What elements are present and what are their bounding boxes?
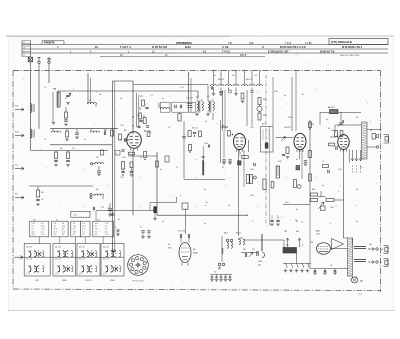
svg-text:5 4 B T 4: 5 4 B T 4: [120, 45, 131, 49]
svg-text:4 1: 4 1: [54, 226, 56, 228]
svg-text:11 4: 11 4: [105, 234, 108, 236]
svg-text:30 4 07: 30 4 07: [55, 247, 61, 249]
svg-text:1 11: 1 11: [32, 223, 35, 225]
svg-text:11 4: 11 4: [32, 231, 35, 233]
svg-text:1402: 1402: [358, 294, 362, 296]
svg-text:4x 4: 4x 4: [285, 202, 288, 204]
svg-text:INTERMEDIO: INTERMEDIO: [176, 42, 192, 45]
svg-text:240: 240: [243, 249, 246, 251]
svg-text:4x: 4x: [326, 119, 328, 121]
svg-text:11 4: 11 4: [32, 234, 35, 236]
svg-text:14: 14: [73, 223, 75, 225]
svg-text:B L: B L: [95, 46, 99, 49]
svg-text:4 1 x: 4 1 x: [26, 274, 30, 276]
svg-text:4. LB: 4. LB: [222, 45, 228, 49]
svg-text:R1: R1: [60, 148, 62, 150]
svg-text:T h. B: T h. B: [285, 43, 292, 45]
svg-text:4x: 4x: [296, 159, 298, 161]
svg-text:Cx: Cx: [380, 262, 382, 264]
svg-text:4 4: 4 4: [82, 231, 84, 233]
svg-text:4 4: 4 4: [82, 223, 84, 225]
svg-text:S45: S45: [262, 124, 265, 126]
svg-text:S40 4.5: S40 4.5: [218, 79, 224, 81]
svg-text:R6: R6: [41, 192, 43, 194]
svg-text:B.B.I: B.B.I: [185, 45, 191, 49]
svg-text:x: x: [316, 89, 317, 91]
svg-text:14: 14: [105, 226, 107, 228]
svg-text:B.M B: B.M B: [240, 55, 247, 57]
svg-text:C18 C19: C18 C19: [186, 98, 193, 100]
svg-text:4 4: 4 4: [105, 231, 107, 233]
svg-text:SK31-2: SK31-2: [85, 280, 91, 282]
svg-text:1 11: 1 11: [105, 223, 108, 225]
svg-text:11 4: 11 4: [41, 234, 44, 236]
svg-text:7 4 4 2: 7 4 4 2: [222, 51, 230, 54]
svg-text:L2: L2: [89, 100, 91, 102]
svg-text:11 4: 11 4: [62, 231, 65, 233]
svg-text:FRONTE: FRONTE: [44, 41, 55, 45]
svg-text:11 4: 11 4: [95, 223, 98, 225]
svg-text:14: 14: [82, 234, 84, 236]
svg-text:4A0: 4A0: [360, 280, 363, 283]
svg-text:11 4: 11 4: [54, 231, 57, 233]
svg-text:x: x: [356, 205, 357, 207]
svg-text:m m: m m: [74, 215, 78, 217]
svg-text:B.BT 14. I BLL.I B 4: B.BT 14. I BLL.I B 4: [340, 55, 360, 57]
svg-text:4x: 4x: [204, 189, 206, 191]
svg-text:S3: S3: [207, 96, 209, 98]
svg-text:30 4 07: 30 4 07: [103, 247, 109, 249]
svg-text:4x: 4x: [204, 223, 206, 225]
svg-text:S2: S2: [196, 97, 198, 99]
svg-text:4 1: 4 1: [95, 234, 97, 236]
svg-text:B6: B6: [311, 242, 313, 244]
svg-text:4x: 4x: [162, 98, 164, 100]
svg-text:1 11: 1 11: [41, 229, 44, 231]
svg-text:40 + 4x: 40 + 4x: [79, 258, 85, 260]
svg-text:P E 2 3 4 9 6: P E 2 3 4 9 6: [132, 281, 144, 283]
svg-text:40 + 4x: 40 + 4x: [55, 258, 61, 260]
svg-text:R24: R24: [263, 99, 266, 101]
svg-text:4 1: 4 1: [73, 234, 75, 236]
svg-text:4 1 x: 4 1 x: [55, 274, 59, 276]
svg-text:4 4: 4 4: [62, 234, 64, 236]
svg-text:C9: C9: [370, 130, 372, 132]
svg-text:B: B: [262, 45, 264, 49]
svg-text:282: 282: [284, 231, 287, 233]
svg-text:4x0: 4x0: [369, 244, 372, 246]
svg-text:80 80 CH8 4T3 9 I I 4 AI: 80 80 CH8 4T3 9 I I 4 AI: [280, 46, 306, 49]
svg-text:4 1: 4 1: [32, 226, 34, 228]
svg-text:BVM: BVM: [110, 280, 115, 282]
svg-text:C x: C x: [108, 207, 111, 209]
svg-text:R21 4x: R21 4x: [192, 128, 198, 130]
svg-text:C12: C12: [140, 96, 143, 98]
svg-text:14: 14: [62, 223, 64, 225]
svg-text:E TAV.OLIV.E 1 BT: E TAV.OLIV.E 1 BT: [268, 51, 289, 54]
svg-text:x: x: [196, 159, 197, 161]
svg-text:C72 C73: C72 C73: [178, 231, 185, 233]
svg-text:4x BL: 4x BL: [204, 143, 208, 145]
svg-text:4 4: 4 4: [41, 223, 43, 225]
svg-text:SA 1: SA 1: [224, 232, 228, 235]
svg-text:x: x: [180, 195, 181, 197]
svg-text:4 11: 4 11: [33, 219, 36, 221]
svg-text:R40: R40: [312, 189, 315, 191]
svg-text:U.B.: U.B.: [249, 42, 254, 45]
svg-text:4x: 4x: [322, 185, 324, 187]
svg-text:14: 14: [54, 234, 56, 236]
svg-text:4 1: 4 1: [62, 229, 64, 231]
svg-text:4x: 4x: [160, 169, 162, 171]
svg-text:11 4: 11 4: [41, 226, 44, 228]
svg-text:4 1 x: 4 1 x: [79, 274, 83, 276]
svg-text:4 4: 4 4: [82, 229, 84, 231]
svg-text:4 4: 4 4: [95, 231, 97, 233]
svg-text:4 4: 4 4: [41, 231, 43, 233]
svg-text:W DI AV.BLL.BV 0: W DI AV.BLL.BV 0: [342, 46, 363, 49]
svg-text:11 4: 11 4: [95, 229, 98, 231]
svg-text:40 + 4x: 40 + 4x: [26, 258, 32, 260]
svg-text:30 4 07: 30 4 07: [26, 247, 32, 249]
svg-text:C4: C4: [330, 265, 332, 267]
svg-text:1x: 1x: [205, 205, 207, 207]
svg-text:a: a: [116, 153, 117, 155]
svg-text:C 4x: C 4x: [205, 202, 209, 204]
svg-text:B3 6T7: B3 6T7: [285, 127, 292, 129]
svg-text:4x: 4x: [140, 157, 142, 159]
svg-text:R26: R26: [263, 115, 266, 117]
svg-text:4x: 4x: [356, 221, 358, 223]
svg-text:11 4: 11 4: [82, 226, 85, 228]
svg-text:4x: 4x: [84, 139, 86, 141]
svg-text:x: x: [370, 121, 371, 123]
svg-text:4 1 x: 4 1 x: [103, 274, 107, 276]
svg-text:C3: C3: [72, 148, 74, 150]
svg-text:4a: 4a: [140, 227, 142, 229]
svg-text:(T.P.) GOKLLE B: (T.P.) GOKLLE B: [331, 40, 352, 44]
svg-text:B. BT B.LTI.B: B. BT B.LTI.B: [152, 46, 167, 49]
svg-text:4 1: 4 1: [56, 219, 58, 221]
svg-text:4 1: 4 1: [105, 229, 107, 231]
svg-text:AWL 4/2: AWL 4/2: [328, 106, 335, 109]
svg-text:11 4: 11 4: [54, 229, 57, 231]
svg-text:T.B.: T.B.: [228, 42, 233, 45]
svg-text:4 4: 4 4: [54, 223, 56, 225]
svg-text:14: 14: [32, 229, 34, 231]
svg-text:B AVI AV T B: B AVI AV T B: [320, 51, 335, 54]
svg-text:382: 382: [296, 231, 299, 233]
svg-text:x: x: [330, 223, 331, 225]
svg-text:40 + 4x: 40 + 4x: [103, 258, 109, 260]
svg-text:4 4: 4 4: [73, 229, 75, 231]
svg-text:S41 4.5: S41 4.5: [246, 79, 252, 81]
svg-text:11 4: 11 4: [73, 226, 76, 228]
svg-text:1x: 1x: [104, 134, 106, 136]
svg-text:1 4.B1: 1 4.B1: [305, 43, 312, 45]
svg-text:4a: 4a: [115, 227, 117, 229]
svg-text:1x: 1x: [214, 75, 216, 77]
svg-text:120: 120: [252, 249, 255, 251]
svg-text:C9: C9: [41, 199, 43, 201]
svg-text:11 4: 11 4: [97, 219, 100, 221]
svg-text:4Bx: 4Bx: [258, 265, 261, 267]
svg-text:30 4 07: 30 4 07: [79, 247, 85, 249]
svg-text:C21: C21: [101, 207, 104, 209]
svg-text:11 4: 11 4: [73, 231, 76, 233]
svg-text:4x: 4x: [302, 94, 304, 96]
svg-text:B1: B1: [328, 128, 330, 130]
svg-text:11 4: 11 4: [62, 226, 65, 228]
svg-text:4x: 4x: [296, 209, 298, 211]
svg-text:4 1: 4 1: [95, 226, 97, 228]
svg-text:C16: C16: [137, 115, 140, 117]
